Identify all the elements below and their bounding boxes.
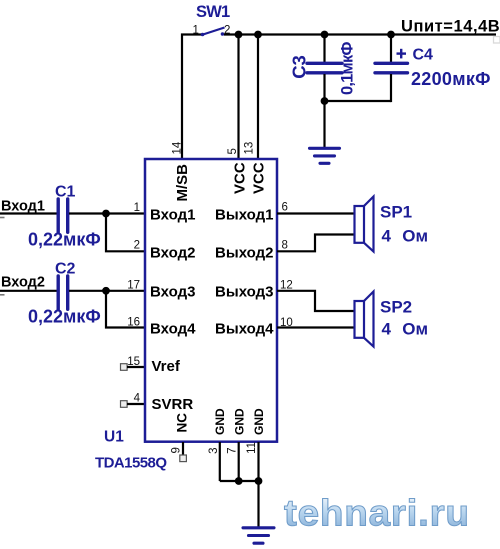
wire pin5 drop: [237, 35, 239, 160]
svg-text:GND: GND: [252, 408, 266, 435]
wire C1 to pin1: [69, 212, 145, 214]
capacitor C2: [58, 276, 67, 309]
svg-text:0,22мкФ: 0,22мкФ: [28, 230, 101, 250]
svg-text:8: 8: [282, 239, 288, 251]
svg-text:2: 2: [134, 240, 140, 252]
wire branch to pin2: [106, 214, 145, 252]
wire C4 bottom: [390, 74, 392, 102]
wire top supply rail: [224, 33, 496, 35]
speaker SP1: [355, 197, 374, 252]
wire pin10 to SP2: [277, 326, 354, 328]
wire pin14 vertical riser and segment to switch: [182, 35, 202, 160]
svg-text:VCC: VCC: [231, 162, 248, 194]
wire C3 top drop: [323, 35, 325, 63]
svg-text:5: 5: [227, 148, 239, 154]
wire pin7 gnd stub: [238, 442, 240, 481]
wire junction to ground: [323, 101, 325, 148]
svg-text:6: 6: [282, 202, 288, 214]
wire gnd rail to ground: [257, 481, 259, 528]
wire pin6 to SP1: [277, 212, 354, 214]
svg-text:3: 3: [208, 447, 220, 453]
input1 edge tick: [0, 217, 5, 219]
capacitor C4 (electrolytic): [375, 63, 408, 73]
svg-text:0,22мкФ: 0,22мкФ: [28, 306, 101, 326]
wire C4 top drop: [390, 35, 392, 63]
wire pin3 gnd stub: [219, 442, 221, 481]
svg-text:SP2: SP2: [380, 298, 412, 317]
svg-text:C3: C3: [288, 55, 309, 79]
C4 polarity plus sign: [397, 49, 407, 59]
svg-text:1: 1: [193, 25, 199, 37]
svg-text:Vref: Vref: [152, 358, 181, 375]
svg-text:Вход4: Вход4: [150, 321, 196, 338]
pin15 pad: [121, 364, 128, 371]
svg-text:16: 16: [127, 317, 140, 329]
junction pin7/gnd rail: [235, 477, 243, 485]
wire pin8 to SP1: [277, 235, 354, 252]
input2 edge tick: [0, 294, 5, 296]
svg-text:GND: GND: [213, 408, 227, 435]
svg-text:VCC: VCC: [251, 162, 268, 194]
svg-text:SW1: SW1: [196, 3, 230, 21]
svg-text:Ом: Ом: [402, 226, 428, 245]
svg-text:C1: C1: [55, 184, 76, 201]
svg-text:13: 13: [243, 142, 255, 155]
svg-text:7: 7: [226, 447, 238, 453]
svg-text:11: 11: [246, 442, 258, 454]
junction pin11/gnd rail: [255, 477, 263, 485]
op-amp U1 TDA1558Q body: [145, 159, 277, 442]
wire input1 to C1: [0, 212, 57, 214]
svg-text:NC: NC: [175, 413, 190, 433]
watermark tehnari.ru: [284, 493, 470, 534]
speaker SP2: [355, 292, 374, 347]
capacitor C1: [58, 199, 67, 232]
svg-text:TDA1558Q: TDA1558Q: [95, 455, 167, 472]
capacitor C3: [307, 63, 342, 73]
svg-text:Вход1: Вход1: [150, 207, 195, 224]
junction pin5/top rail: [235, 31, 243, 39]
svg-text:15: 15: [127, 356, 140, 368]
wire gnd rail: [220, 480, 259, 482]
wire pin13 drop: [257, 35, 259, 160]
svg-text:Вход2: Вход2: [1, 275, 45, 291]
svg-text:M/SB: M/SB: [174, 164, 191, 202]
svg-text:1: 1: [134, 202, 140, 214]
svg-text:Выход2: Выход2: [215, 244, 273, 261]
junction C3-C4 bottom: [321, 97, 329, 105]
svg-text:SVRR: SVRR: [152, 396, 194, 413]
wire C3 bottom to junction: [323, 74, 325, 101]
junction C3/top rail: [321, 31, 329, 39]
pin9 pad: [180, 455, 187, 462]
svg-text:Вход1: Вход1: [1, 199, 45, 215]
svg-text:U1: U1: [104, 429, 124, 446]
svg-text:C2: C2: [55, 261, 76, 278]
svg-text:SP1: SP1: [380, 203, 412, 222]
junction input2 branch: [102, 287, 110, 295]
wire branch to pin16: [106, 291, 145, 328]
supply rail end marker: [494, 37, 500, 44]
ground (top, under C3/C4): [310, 148, 340, 163]
svg-text:Выход1: Выход1: [215, 207, 273, 224]
switch SW1: [201, 28, 225, 37]
wire C2 to pin17: [69, 290, 145, 292]
svg-text:Вход2: Вход2: [150, 244, 195, 261]
svg-text:9: 9: [170, 447, 182, 453]
ground (bottom): [243, 528, 274, 543]
svg-text:C4: C4: [413, 47, 434, 64]
svg-text:Вход3: Вход3: [150, 284, 195, 301]
wire pin4 stub: [127, 403, 145, 405]
svg-text:2200мкФ: 2200мкФ: [411, 69, 491, 89]
svg-text:tehnari.ru: tehnari.ru: [284, 493, 470, 534]
junction C4/top rail: [387, 31, 395, 39]
wire pin9 stub: [182, 442, 184, 455]
svg-text:GND: GND: [232, 408, 246, 435]
svg-text:0,1мкФ: 0,1мкФ: [339, 42, 357, 95]
svg-text:4: 4: [134, 393, 141, 405]
junction input1 branch: [102, 210, 110, 218]
wire pin15 stub: [127, 366, 145, 368]
junction pin13/top rail: [254, 31, 262, 39]
svg-text:4: 4: [382, 319, 392, 338]
svg-text:Ом: Ом: [402, 319, 428, 338]
svg-text:Выход4: Выход4: [215, 321, 274, 338]
svg-text:Выход3: Выход3: [215, 284, 273, 301]
svg-text:14: 14: [172, 141, 184, 154]
wire input2 to C2: [0, 290, 57, 292]
pin4 pad: [121, 401, 128, 408]
svg-text:Uпит=14,4В: Uпит=14,4В: [401, 18, 500, 36]
wire pin11 gnd stub: [257, 442, 259, 481]
svg-text:17: 17: [127, 280, 140, 292]
wire pin12 to SP2: [277, 291, 354, 311]
svg-text:4: 4: [382, 226, 392, 245]
wire junction to C4 bottom: [325, 100, 392, 102]
